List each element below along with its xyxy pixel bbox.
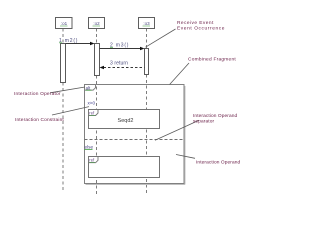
svg-text::o3: :o3 <box>143 21 150 26</box>
svg-text:ref: ref <box>89 158 95 163</box>
alt operator pentagon <box>85 85 96 91</box>
annotation: Receive Event / Event Occurrence <box>146 20 226 47</box>
lifeline :o3 dashed line <box>146 29 148 49</box>
message 3 return (dashed reply) <box>100 61 145 70</box>
annotation: Interaction Operand separator <box>155 113 238 140</box>
interaction use ref (second operand) <box>89 157 160 178</box>
annotation: Interaction Operator <box>14 87 85 97</box>
svg-text:x>0: x>0 <box>88 101 96 106</box>
svg-text:Interaction Operator: Interaction Operator <box>14 91 61 97</box>
lifeline :o2 head box <box>89 18 105 29</box>
activation bar lifeline 3 <box>145 49 149 75</box>
svg-text:alt: alt <box>86 85 91 90</box>
svg-text:else: else <box>85 145 94 150</box>
svg-text::o2: :o2 <box>93 21 100 26</box>
lifeline :o1 dashed line <box>62 29 64 44</box>
annotation: Interaction Constraint <box>15 107 89 124</box>
lifeline :o1 head box <box>56 18 73 29</box>
message 2 m3() <box>100 43 145 51</box>
lifeline :o2 dashed line <box>96 29 98 44</box>
svg-text:Combined Fragment: Combined Fragment <box>188 56 236 62</box>
svg-text:Interaction Operand: Interaction Operand <box>193 113 238 119</box>
svg-text::o1: :o1 <box>61 21 68 26</box>
interaction use ref Seqd2 (first operand) <box>89 110 160 129</box>
combined fragment alt <box>85 85 186 185</box>
annotation: Interaction Operand <box>176 155 241 166</box>
message 1 m2() <box>59 38 95 45</box>
interaction operand separator (dashed) <box>85 139 185 141</box>
lifeline :o3 head box <box>139 18 155 29</box>
keyword else <box>85 145 94 150</box>
svg-text:Interaction Constraint: Interaction Constraint <box>15 117 64 123</box>
svg-text:separator: separator <box>193 118 214 124</box>
svg-text:Receive Event: Receive Event <box>177 20 214 26</box>
svg-text:ref: ref <box>89 111 95 116</box>
annotation: Combined Fragment <box>170 56 237 84</box>
svg-text:Interaction Operand: Interaction Operand <box>196 159 241 165</box>
svg-text:3 return: 3 return <box>110 61 128 67</box>
activation bar lifeline 2 <box>95 44 100 76</box>
svg-text:Seqd2: Seqd2 <box>118 118 134 124</box>
svg-text:Event Occurrence: Event Occurrence <box>177 26 225 32</box>
activation bar lifeline 1 <box>61 44 66 83</box>
